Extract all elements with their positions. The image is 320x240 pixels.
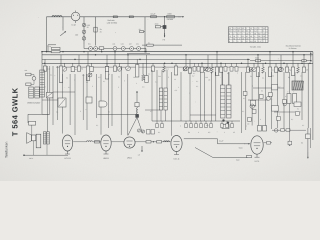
svg-text:0,1: 0,1 — [96, 124, 98, 127]
svg-text:7: 7 — [242, 32, 243, 35]
svg-text:63: 63 — [242, 35, 244, 38]
svg-text:12: 12 — [229, 27, 231, 30]
svg-text:25: 25 — [100, 30, 102, 33]
svg-text:1,2: 1,2 — [233, 27, 236, 30]
svg-text:50: 50 — [118, 76, 120, 79]
svg-text:60: 60 — [254, 40, 256, 43]
svg-text:50: 50 — [250, 75, 252, 78]
svg-text:8: 8 — [229, 40, 230, 43]
svg-text:0,8: 0,8 — [263, 35, 266, 38]
svg-text:0,1μF: 0,1μF — [151, 13, 157, 16]
svg-text:0,1: 0,1 — [196, 85, 198, 88]
svg-text:10k: 10k — [205, 76, 208, 79]
svg-text:2: 2 — [233, 32, 234, 35]
svg-text:1,2: 1,2 — [258, 40, 261, 43]
svg-text:1,2: 1,2 — [263, 32, 266, 35]
svg-text:2: 2 — [180, 124, 181, 127]
svg-text:Tonabn. (TA): Tonabn. (TA) — [250, 45, 261, 48]
svg-text:2: 2 — [237, 40, 238, 43]
svg-text:Wellenschalter: Wellenschalter — [27, 102, 40, 105]
svg-text:8: 8 — [254, 35, 255, 38]
svg-text:0,8: 0,8 — [246, 32, 249, 35]
svg-text:12: 12 — [237, 32, 239, 35]
svg-text:0,1: 0,1 — [148, 72, 150, 75]
svg-text:5000: 5000 — [239, 146, 243, 149]
svg-text:0,8: 0,8 — [246, 38, 249, 41]
svg-text:UM11: UM11 — [127, 156, 133, 159]
svg-text:0,5: 0,5 — [150, 110, 152, 113]
svg-text:300: 300 — [158, 75, 161, 78]
svg-text:8μ: 8μ — [288, 76, 290, 79]
svg-text:5: 5 — [168, 76, 169, 79]
svg-text:0,1: 0,1 — [56, 110, 58, 113]
svg-text:50: 50 — [81, 67, 83, 70]
svg-text:2000: 2000 — [155, 23, 159, 26]
svg-text:2k: 2k — [272, 75, 274, 78]
svg-text:40: 40 — [237, 30, 239, 33]
svg-text:0,1: 0,1 — [302, 124, 304, 127]
svg-text:63: 63 — [263, 38, 265, 41]
svg-text:0,1: 0,1 — [166, 67, 168, 70]
svg-text:63: 63 — [250, 35, 252, 38]
svg-text:95: 95 — [258, 35, 260, 38]
svg-text:4: 4 — [252, 84, 253, 87]
svg-text:8: 8 — [254, 38, 255, 41]
svg-text:0,5: 0,5 — [300, 74, 302, 77]
svg-text:1: 1 — [178, 86, 179, 89]
svg-text:4,5: 4,5 — [242, 27, 245, 30]
svg-text:0,1: 0,1 — [242, 110, 244, 113]
svg-text:0,1: 0,1 — [68, 86, 70, 89]
svg-text:+: + — [287, 91, 288, 94]
svg-text:40: 40 — [246, 35, 248, 38]
svg-text:1,2: 1,2 — [237, 38, 240, 41]
svg-text:60: 60 — [233, 38, 235, 41]
svg-text:7: 7 — [263, 40, 264, 43]
svg-text:1,2: 1,2 — [263, 27, 266, 30]
svg-text:400: 400 — [75, 34, 78, 37]
svg-text:0,8: 0,8 — [250, 40, 253, 43]
svg-text:5k: 5k — [66, 76, 68, 79]
svg-text:+: + — [293, 91, 294, 94]
svg-text:63: 63 — [258, 32, 260, 35]
svg-text:50: 50 — [108, 111, 110, 114]
svg-text:8: 8 — [229, 32, 230, 35]
svg-text:4000: 4000 — [167, 13, 171, 16]
svg-text:95: 95 — [254, 32, 256, 35]
svg-text:Vorkreis: Vorkreis — [107, 19, 114, 22]
svg-text:4,5: 4,5 — [229, 30, 232, 33]
svg-text:0,2: 0,2 — [192, 74, 194, 77]
svg-text:UBF11: UBF11 — [103, 157, 110, 160]
svg-text:1: 1 — [219, 74, 220, 77]
svg-text:18: 18 — [233, 35, 235, 38]
svg-text:18: 18 — [258, 38, 260, 41]
svg-text:5: 5 — [246, 27, 247, 30]
svg-text:5: 5 — [233, 40, 234, 43]
svg-text:und Drehko: und Drehko — [107, 21, 118, 24]
svg-text:2: 2 — [118, 86, 119, 89]
svg-text:Netz: Netz — [236, 159, 240, 162]
svg-text:UCL11: UCL11 — [173, 157, 180, 160]
svg-text:1,2: 1,2 — [233, 30, 236, 33]
svg-text:12: 12 — [250, 27, 252, 30]
svg-text:2: 2 — [258, 27, 259, 30]
svg-text:25: 25 — [306, 68, 308, 71]
svg-text:4,5: 4,5 — [237, 27, 240, 30]
svg-text:0,5: 0,5 — [98, 76, 100, 79]
svg-text:0,3: 0,3 — [142, 85, 144, 88]
svg-text:5: 5 — [263, 30, 264, 33]
svg-text:8: 8 — [250, 30, 251, 33]
svg-text:0,2: 0,2 — [278, 86, 280, 89]
svg-text:0,1: 0,1 — [175, 89, 177, 92]
svg-text:Telefunken: Telefunken — [4, 141, 8, 158]
svg-text:7: 7 — [250, 32, 251, 35]
svg-text:U-Röhren: U-Röhren — [289, 47, 297, 50]
svg-text:12: 12 — [229, 35, 231, 38]
svg-text:1: 1 — [246, 124, 247, 127]
svg-text:12: 12 — [242, 30, 244, 33]
svg-text:50: 50 — [139, 28, 141, 31]
svg-text:UCH11: UCH11 — [64, 157, 71, 160]
svg-text:0,1: 0,1 — [50, 74, 52, 77]
svg-text:1,5: 1,5 — [138, 153, 140, 156]
svg-text:25: 25 — [87, 26, 89, 29]
svg-text:5: 5 — [237, 35, 238, 38]
svg-text:T 564 GWLK: T 564 GWLK — [10, 87, 19, 136]
svg-text:1,2: 1,2 — [254, 27, 257, 30]
svg-text:60: 60 — [246, 30, 248, 33]
svg-text:0,3: 0,3 — [206, 124, 208, 127]
svg-text:0,1: 0,1 — [262, 76, 264, 79]
svg-text:0,1: 0,1 — [75, 68, 77, 71]
svg-text:0,1μF: 0,1μF — [219, 140, 223, 143]
svg-text:5: 5 — [92, 85, 93, 88]
svg-text:2: 2 — [300, 111, 301, 114]
svg-text:0,3: 0,3 — [242, 38, 245, 41]
svg-text:LW/MW: LW/MW — [167, 18, 174, 21]
svg-text:8: 8 — [242, 40, 243, 43]
svg-text:1,2: 1,2 — [254, 30, 257, 33]
svg-text:1: 1 — [204, 110, 205, 113]
svg-text:25: 25 — [246, 40, 248, 43]
svg-text:8μ: 8μ — [289, 68, 291, 71]
svg-text:2: 2 — [80, 110, 81, 113]
svg-text:5: 5 — [229, 38, 230, 41]
svg-text:7: 7 — [250, 38, 251, 41]
svg-text:3: 3 — [109, 73, 110, 76]
